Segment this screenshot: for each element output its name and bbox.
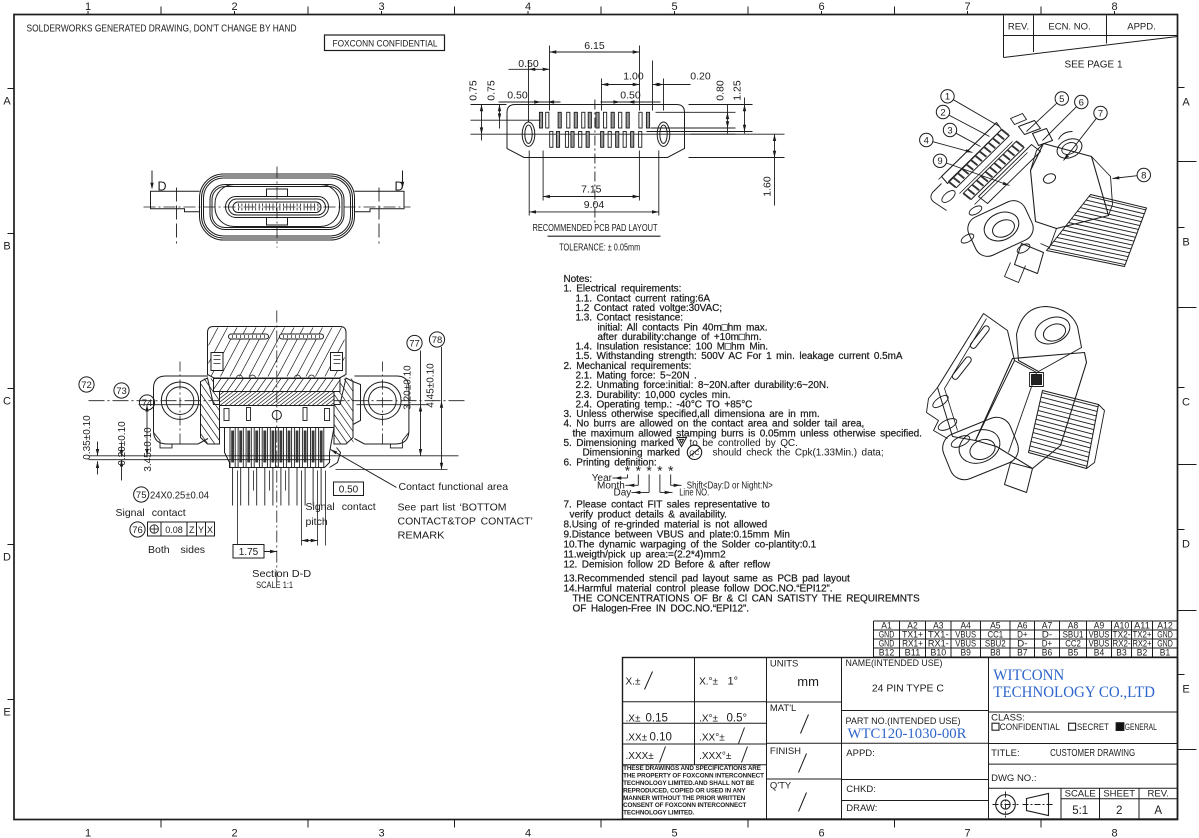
svg-text:24 PIN TYPE C: 24 PIN TYPE C — [872, 684, 944, 695]
svg-text:76: 76 — [132, 525, 143, 536]
svg-text:SCALE 1:1: SCALE 1:1 — [256, 580, 293, 591]
svg-text:CONTACT&TOP CONTACT’: CONTACT&TOP CONTACT’ — [398, 516, 533, 528]
svg-text:B7: B7 — [1017, 647, 1027, 657]
svg-text:.XX±: .XX± — [626, 732, 648, 743]
svg-text:CHKD:: CHKD: — [846, 784, 876, 795]
svg-text:X: X — [207, 525, 213, 535]
svg-text:24X0.25±0.04: 24X0.25±0.04 — [150, 490, 209, 502]
svg-text:1: 1 — [945, 92, 950, 103]
svg-text:B10: B10 — [931, 647, 947, 657]
svg-text:B5: B5 — [1068, 647, 1078, 657]
svg-text:WITCONN: WITCONN — [993, 667, 1064, 684]
svg-text:0.10: 0.10 — [650, 731, 672, 743]
svg-text:should check the Cpk(1.33Min.): should check the Cpk(1.33Min.) data; — [713, 448, 884, 459]
svg-text:4: 4 — [525, 828, 531, 838]
svg-text:MANNER WITHOUT THE PRIOR WRITT: MANNER WITHOUT THE PRIOR WRITTEN — [623, 795, 746, 802]
svg-text:.XX°±: .XX°± — [699, 732, 725, 743]
svg-text:D: D — [3, 552, 11, 564]
svg-text:0.75: 0.75 — [486, 80, 498, 101]
svg-text:D: D — [158, 180, 167, 194]
svg-text:0.80: 0.80 — [715, 80, 727, 101]
notes text block lower — [564, 500, 920, 615]
svg-text:.X°±: .X°± — [699, 714, 718, 725]
legal text — [623, 765, 764, 816]
svg-text:THE PROPERTY OF FOXCONN INTERC: THE PROPERTY OF FOXCONN INTERCONNECT — [623, 773, 764, 780]
svg-text:5: 5 — [671, 828, 677, 838]
svg-text:3: 3 — [378, 828, 384, 838]
svg-text:TECHNOLOGY LIMITED.: TECHNOLOGY LIMITED. — [623, 810, 694, 817]
svg-text:B: B — [3, 241, 10, 253]
svg-text:CUSTOMER DRAWING: CUSTOMER DRAWING — [1050, 748, 1135, 759]
svg-text:THESE DRAWINGS AND SPECIFICATI: THESE DRAWINGS AND SPECIFICATIONS ARE — [623, 765, 761, 772]
svg-text:WTC120-1030-00R: WTC120-1030-00R — [848, 726, 967, 742]
iso1 balloons and leaders — [941, 90, 954, 103]
svg-text:75: 75 — [136, 490, 147, 501]
section D-D dimensions left — [79, 377, 94, 392]
title block frame — [623, 658, 1178, 820]
svg-text:0.50: 0.50 — [518, 58, 539, 70]
svg-text:REPRODUCED, COPIED OR USED IN: REPRODUCED, COPIED OR USED IN ANY — [623, 787, 746, 794]
svg-text:B3: B3 — [1116, 647, 1126, 657]
svg-text:1.75: 1.75 — [239, 547, 259, 558]
svg-text:FOXCONN CONFIDENTIAL: FOXCONN CONFIDENTIAL — [333, 39, 438, 50]
svg-text:B6: B6 — [1042, 647, 1052, 657]
svg-text:4.45±0.10: 4.45±0.10 — [426, 363, 437, 408]
foxconn confidential box — [325, 35, 445, 51]
svg-text:DWG NO.:: DWG NO.: — [991, 773, 1036, 784]
svg-text:UNITS: UNITS — [770, 659, 799, 670]
svg-text:Q'TY: Q'TY — [770, 781, 792, 792]
svg-text:B9: B9 — [961, 647, 971, 657]
svg-text:E: E — [1182, 684, 1189, 696]
svg-text:2: 2 — [1116, 805, 1122, 817]
svg-text:.XXX±: .XXX± — [626, 751, 655, 762]
svg-text:3: 3 — [947, 125, 952, 136]
svg-text:1°: 1° — [728, 676, 739, 688]
svg-text:0.5°: 0.5° — [727, 713, 748, 725]
svg-text:OF Halogen-Free IN DOC.NO.“EPI: OF Halogen-Free IN DOC.NO.“EPI12”. — [573, 604, 750, 615]
svg-text:0.50: 0.50 — [620, 90, 641, 102]
svg-text:See part list ‘BOTTOM: See part list ‘BOTTOM — [398, 502, 507, 514]
pad layout dimensions — [549, 46, 551, 111]
svg-text:0.20±0.10: 0.20±0.10 — [117, 421, 128, 466]
scale sheet rev — [1060, 788, 1062, 819]
svg-text:Signal contact: Signal contact — [116, 507, 186, 519]
svg-text:X.±: X.± — [626, 677, 641, 688]
svg-text:ECN. NO.: ECN. NO. — [1048, 22, 1090, 33]
svg-text:78: 78 — [432, 335, 443, 346]
section D-D view — [89, 327, 466, 506]
svg-text:0.35±0.10: 0.35±0.10 — [82, 415, 93, 460]
svg-text:B1: B1 — [1160, 647, 1170, 657]
notes text block — [564, 274, 922, 468]
svg-text:CONSENT OF FOXCONN INTERCONNEC: CONSENT OF FOXCONN INTERCONNECT — [623, 802, 746, 809]
svg-text:8: 8 — [1141, 170, 1146, 181]
svg-text:CONFIDENTIAL: CONFIDENTIAL — [1000, 722, 1060, 733]
svg-text:2: 2 — [940, 107, 945, 118]
svg-text:E: E — [3, 707, 10, 719]
svg-text:NAME(INTENDED USE): NAME(INTENDED USE) — [846, 658, 943, 669]
svg-text:1: 1 — [85, 828, 91, 838]
svg-text:TOLERANCE: ± 0.05mm: TOLERANCE: ± 0.05mm — [559, 242, 640, 253]
svg-text:0.15: 0.15 — [646, 713, 668, 725]
svg-text:7.15: 7.15 — [581, 184, 602, 196]
svg-text:Both sides: Both sides — [148, 544, 205, 556]
top view of connector — [144, 167, 411, 248]
svg-text:Section D-D: Section D-D — [252, 568, 311, 580]
svg-text:6.15: 6.15 — [584, 40, 605, 52]
svg-text:1.25: 1.25 — [732, 80, 744, 101]
svg-text:SECRET: SECRET — [1077, 722, 1109, 733]
svg-text:C: C — [1182, 397, 1190, 409]
svg-text:Line NO.: Line NO. — [679, 487, 709, 498]
svg-text:B: B — [1182, 237, 1189, 249]
note 5 QC symbols — [677, 438, 687, 447]
svg-text:B2: B2 — [1137, 647, 1147, 657]
svg-text:MAT'L: MAT'L — [770, 703, 796, 714]
svg-text:A: A — [1182, 97, 1190, 109]
svg-text:12. Demision follow 2D Before: 12. Demision follow 2D Before & after re… — [564, 560, 771, 571]
svg-text:X.°±: X.°± — [699, 677, 718, 688]
svg-text:0.50: 0.50 — [339, 485, 359, 496]
svg-text:Contact functional area: Contact functional area — [399, 481, 509, 493]
svg-text:FINISH: FINISH — [770, 746, 801, 757]
recommended pcb pad layout view — [491, 100, 736, 226]
svg-text:B4: B4 — [1094, 647, 1104, 657]
svg-text:2: 2 — [231, 828, 237, 838]
svg-text:Day: Day — [614, 487, 632, 498]
svg-text:SOLDERWORKS GENERATED DRAWING,: SOLDERWORKS GENERATED DRAWING, DON'T CHA… — [27, 24, 297, 35]
svg-text:QC: QC — [689, 450, 699, 457]
svg-text:A: A — [1154, 805, 1162, 817]
svg-text:73: 73 — [116, 386, 127, 397]
svg-text:APPD.: APPD. — [1127, 22, 1156, 33]
revision table — [1003, 16, 1005, 58]
svg-text:TECHNOLOGY LIMITED.AND SHALL N: TECHNOLOGY LIMITED.AND SHALL NOT BE — [623, 780, 754, 787]
svg-text:A: A — [3, 96, 11, 108]
svg-text:SCALE: SCALE — [1065, 789, 1096, 800]
svg-text:.X±: .X± — [626, 714, 641, 725]
svg-text:B11: B11 — [905, 647, 921, 657]
section D-D lower labels — [134, 487, 149, 502]
svg-text:3.20±0.10: 3.20±0.10 — [403, 365, 414, 410]
pin assignment table — [874, 620, 1178, 657]
svg-text:REMARK: REMARK — [398, 530, 445, 542]
svg-text:D: D — [1182, 539, 1190, 551]
tolerance table text — [626, 672, 748, 763]
svg-text:REV.: REV. — [1008, 22, 1029, 33]
svg-text:6. Printing definition:: 6. Printing definition: — [564, 457, 657, 468]
svg-text:6: 6 — [818, 828, 824, 838]
svg-text:TECHNOLOGY CO.,LTD: TECHNOLOGY CO.,LTD — [993, 684, 1155, 701]
svg-text:GENERAL: GENERAL — [1125, 722, 1157, 733]
svg-text:7: 7 — [964, 828, 970, 838]
svg-text:77: 77 — [409, 338, 420, 349]
svg-text:1.60: 1.60 — [762, 176, 774, 197]
svg-text:B12: B12 — [879, 647, 895, 657]
svg-text:B8: B8 — [990, 647, 1000, 657]
svg-text:0.08: 0.08 — [165, 525, 183, 535]
svg-text:6: 6 — [1079, 97, 1084, 108]
svg-text:DRAW:: DRAW: — [846, 803, 877, 814]
svg-text:SHEET: SHEET — [1103, 789, 1135, 800]
svg-text:0.20: 0.20 — [690, 71, 711, 83]
svg-text:REV.: REV. — [1148, 789, 1169, 800]
section D-D dimensions right — [407, 335, 422, 350]
svg-text:TITLE:: TITLE: — [991, 748, 1020, 759]
svg-text:5:1: 5:1 — [1072, 805, 1088, 817]
svg-text:RECOMMENDED PCB PAD LAYOUT: RECOMMENDED PCB PAD LAYOUT — [533, 222, 658, 234]
svg-text:pitch: pitch — [306, 516, 328, 528]
isometric view 1 (with balloons) — [931, 114, 1147, 283]
svg-text:5: 5 — [1059, 94, 1064, 105]
svg-text:7: 7 — [1098, 108, 1103, 119]
svg-text:.XXX°±: .XXX°± — [699, 751, 732, 762]
svg-text:4: 4 — [924, 135, 929, 146]
svg-text:Z: Z — [189, 525, 195, 535]
svg-text:C: C — [3, 396, 11, 408]
svg-text:Signal contact: Signal contact — [306, 501, 376, 513]
third angle projection symbol — [996, 795, 1016, 815]
svg-text:Y: Y — [198, 525, 204, 535]
svg-text:9: 9 — [937, 156, 942, 167]
svg-text:0.75: 0.75 — [468, 80, 480, 101]
svg-text:APPD:: APPD: — [846, 748, 875, 759]
isometric view 2 — [927, 307, 1105, 493]
svg-text:72: 72 — [81, 380, 92, 391]
svg-text:1.00: 1.00 — [623, 71, 644, 83]
svg-text:0.50: 0.50 — [507, 90, 528, 102]
svg-text:8: 8 — [1111, 828, 1117, 838]
svg-text:9.04: 9.04 — [584, 199, 605, 211]
svg-text:SEE PAGE 1: SEE PAGE 1 — [1065, 60, 1123, 71]
svg-text:mm: mm — [797, 674, 819, 689]
